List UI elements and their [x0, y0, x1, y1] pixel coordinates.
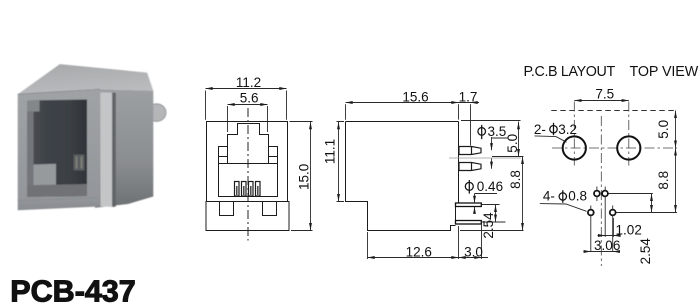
svg-text:0.8: 0.8 — [568, 189, 587, 204]
svg-text:3.06: 3.06 — [594, 238, 620, 253]
svg-text:3.5: 3.5 — [488, 124, 507, 139]
svg-text:1.02: 1.02 — [616, 223, 642, 238]
svg-text:TOP VIEW: TOP VIEW — [630, 64, 699, 80]
svg-text:3.0: 3.0 — [464, 245, 483, 260]
svg-text:5.6: 5.6 — [240, 90, 259, 105]
svg-text:2-: 2- — [534, 122, 546, 137]
svg-text:11.2: 11.2 — [236, 75, 261, 90]
svg-text:0.46: 0.46 — [477, 179, 503, 194]
svg-text:11.1: 11.1 — [322, 139, 337, 164]
svg-text:3.2: 3.2 — [558, 122, 577, 137]
svg-text:12.6: 12.6 — [406, 245, 432, 260]
svg-text:7.5: 7.5 — [595, 86, 614, 101]
svg-text:8.8: 8.8 — [508, 170, 523, 189]
svg-text:1.7: 1.7 — [459, 89, 478, 104]
svg-text:PCB-437: PCB-437 — [10, 275, 135, 304]
svg-text:2.54: 2.54 — [481, 212, 496, 239]
svg-text:P.C.B LAYOUT: P.C.B LAYOUT — [524, 64, 616, 80]
svg-text:5.0: 5.0 — [505, 134, 520, 153]
svg-text:4-: 4- — [543, 189, 555, 204]
svg-text:8.8: 8.8 — [656, 171, 671, 190]
svg-text:2.54: 2.54 — [638, 238, 653, 265]
svg-text:15.0: 15.0 — [297, 164, 312, 190]
svg-text:5.0: 5.0 — [656, 120, 671, 139]
svg-text:15.6: 15.6 — [402, 89, 428, 104]
